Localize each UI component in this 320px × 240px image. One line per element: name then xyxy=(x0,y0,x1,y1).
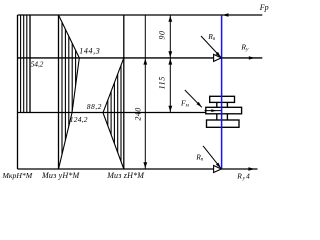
reaction Rn diagonal arrow at bottom bearing xyxy=(203,146,221,169)
svg-text:240: 240 xyxy=(134,107,143,120)
torque diagram Mkr hatching xyxy=(21,15,27,113)
bending diagram Miz y hatching xyxy=(62,10,76,175)
wire: top level line L1 (shaft top end) xyxy=(18,14,263,16)
reaction Ry4 arrow on L4 xyxy=(248,167,254,170)
wire: bottom bearing level line L4 xyxy=(18,168,258,170)
reaction Rn diagonal arrow at top bearing xyxy=(201,36,221,57)
wire: bearing level line L2 xyxy=(18,57,263,59)
svg-text:Миз уН*М: Миз уН*М xyxy=(41,171,81,180)
torque diagram Mkr rectangle right edge xyxy=(29,15,31,113)
bending diagram Miz z outline xyxy=(103,58,124,169)
bearing support symbol at top junction xyxy=(214,54,222,61)
node: bending diagram Miz y baseline xyxy=(58,15,60,169)
svg-text:Fp: Fp xyxy=(259,3,269,12)
svg-text:88,2: 88,2 xyxy=(87,102,102,111)
reaction Ry arrow on L2 xyxy=(249,56,255,59)
svg-text:115: 115 xyxy=(157,76,166,89)
svg-text:144,3: 144,3 xyxy=(79,47,100,56)
bending diagram Miz z hatching xyxy=(108,55,121,172)
force Fm diagonal arrow at gear xyxy=(185,90,202,107)
bending diagram Miz y outline xyxy=(59,15,80,169)
force Fp arrowhead (pointing left at shaft top) xyxy=(222,13,228,16)
dimension line 240 (x=145.3) xyxy=(144,15,146,169)
svg-text:54,2: 54,2 xyxy=(31,61,44,69)
svg-text:124,2: 124,2 xyxy=(70,115,88,124)
bearing support symbol at bottom junction xyxy=(214,166,222,173)
gear hub stack on shaft xyxy=(206,96,242,127)
wire: gear level line L3 xyxy=(18,112,207,114)
dimension line 90/115 (x=170.3) xyxy=(169,15,171,113)
svg-text:90: 90 xyxy=(157,30,166,39)
svg-text:Миз zН*М: Миз zН*М xyxy=(106,171,145,180)
shaft (blue axis line) xyxy=(221,16,223,169)
node: bending diagram Miz z baseline xyxy=(123,15,125,169)
svg-text:МкрН*М: МкрН*М xyxy=(2,171,33,180)
node: torque diagram Mkr baseline xyxy=(17,15,19,169)
force F horizontal arrow at gear xyxy=(205,110,222,112)
